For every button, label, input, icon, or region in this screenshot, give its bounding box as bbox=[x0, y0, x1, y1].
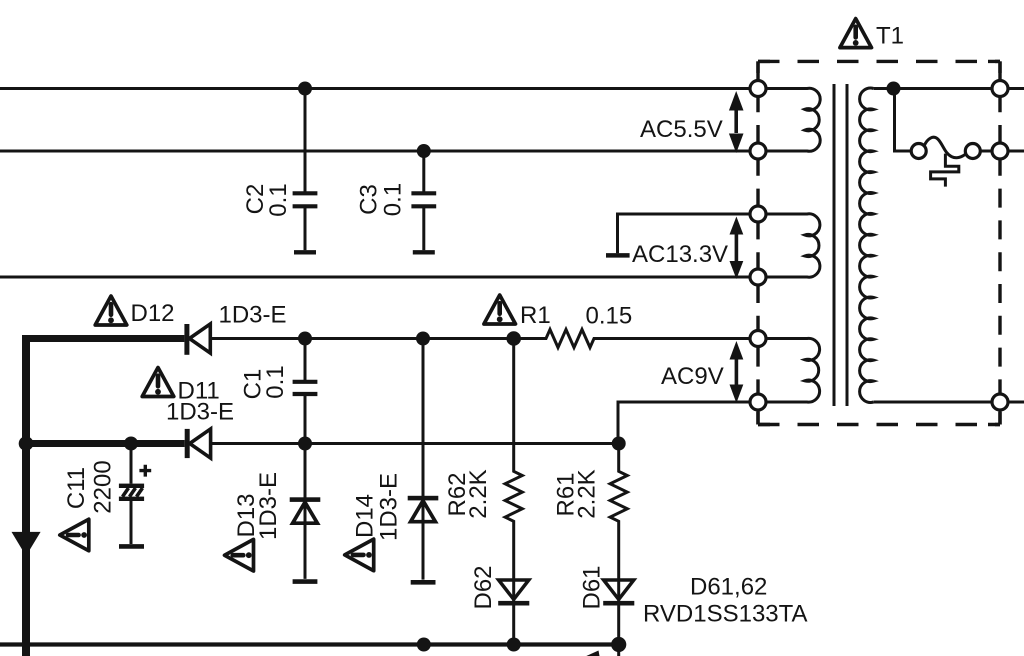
svg-text:AC13.3V: AC13.3V bbox=[632, 241, 728, 268]
svg-text:C11: C11 bbox=[63, 467, 90, 509]
svg-text:RVD1SS133TA: RVD1SS133TA bbox=[643, 601, 808, 628]
svg-text:D61,62: D61,62 bbox=[690, 574, 767, 601]
svg-text:2.2K: 2.2K bbox=[574, 469, 601, 518]
svg-text:0.1: 0.1 bbox=[262, 365, 289, 398]
svg-text:1D3-E: 1D3-E bbox=[219, 302, 287, 329]
svg-text:D61: D61 bbox=[579, 565, 606, 609]
svg-text:2200: 2200 bbox=[90, 460, 117, 513]
svg-text:C3: C3 bbox=[356, 184, 383, 215]
svg-text:T1: T1 bbox=[876, 23, 904, 50]
svg-text:AC5.5V: AC5.5V bbox=[640, 116, 723, 143]
svg-text:AC9V: AC9V bbox=[661, 363, 724, 390]
svg-text:2.2K: 2.2K bbox=[465, 469, 492, 518]
svg-text:0.1: 0.1 bbox=[380, 183, 407, 216]
svg-text:1D3-E: 1D3-E bbox=[375, 473, 402, 541]
svg-text:0.15: 0.15 bbox=[586, 303, 633, 330]
svg-text:D62: D62 bbox=[470, 565, 497, 609]
svg-text:D12: D12 bbox=[131, 300, 175, 327]
svg-text:1D3-E: 1D3-E bbox=[166, 399, 234, 426]
svg-text:1D3-E: 1D3-E bbox=[255, 472, 282, 540]
svg-text:R1: R1 bbox=[520, 302, 551, 329]
svg-text:0.1: 0.1 bbox=[265, 183, 292, 216]
